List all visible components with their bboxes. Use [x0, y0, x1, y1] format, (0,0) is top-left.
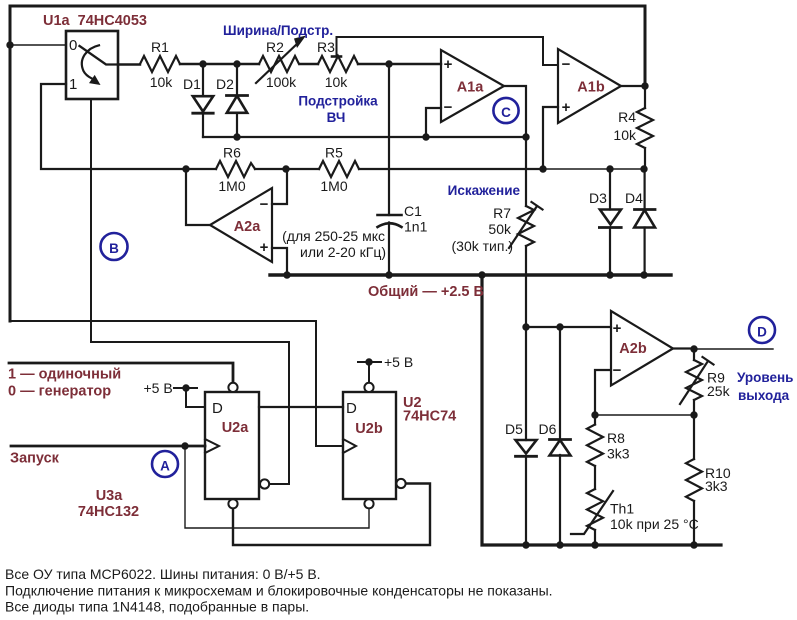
svg-text:D2: D2 — [216, 76, 234, 92]
flip-flop U2a box — [205, 392, 259, 499]
wire R10 column — [693, 415, 695, 545]
svg-text:R3: R3 — [317, 39, 335, 55]
op-amp A1a — [441, 50, 504, 122]
U2a Qbar bubble — [260, 479, 269, 488]
resistor R8 — [587, 425, 603, 466]
wire R2-R3 — [300, 63, 318, 65]
svg-text:3k3: 3k3 — [705, 478, 728, 494]
svg-text:D6: D6 — [539, 421, 557, 437]
svg-text:Все диоды типа 1N4148, подобра: Все диоды типа 1N4148, подобранные в пар… — [5, 599, 309, 615]
U2b clock triangle — [343, 439, 356, 453]
svg-text:U2a: U2a — [222, 420, 250, 436]
wire zapusk input to U2a clock — [11, 445, 205, 448]
wire output D thin line — [694, 348, 773, 350]
U2a set bubble — [228, 499, 237, 508]
svg-text:A: A — [160, 459, 170, 474]
wire A2b output — [673, 347, 694, 349]
svg-text:−: − — [260, 196, 269, 213]
svg-text:1M0: 1M0 — [218, 178, 245, 194]
wire U1a output to R1 — [118, 63, 140, 65]
wire R8 top and R8-Th1 link and Th1 bottom — [594, 415, 596, 545]
switch U1a box — [66, 31, 118, 99]
svg-text:D3: D3 — [589, 190, 607, 206]
svg-text:1 — одиночный: 1 — одиночный — [8, 367, 121, 383]
svg-text:R4: R4 — [618, 109, 636, 125]
svg-text:1n1: 1n1 — [404, 219, 428, 235]
svg-text:R2: R2 — [266, 39, 284, 55]
svg-text:Запуск: Запуск — [10, 451, 60, 467]
svg-text:100k: 100k — [266, 74, 297, 90]
resistor R4 — [637, 108, 653, 148]
svg-text:ВЧ: ВЧ — [327, 110, 346, 125]
op-amp A2a pointing left — [210, 188, 272, 262]
wire A2a plus stub to common bus — [272, 248, 287, 275]
wire U2a Q to U2b D — [259, 406, 343, 408]
diode D2 — [227, 94, 248, 97]
svg-text:U3a: U3a — [96, 488, 124, 504]
svg-text:Ширина/Подстр.: Ширина/Подстр. — [223, 23, 333, 38]
svg-text:10k: 10k — [150, 74, 174, 90]
svg-text:D4: D4 — [625, 190, 643, 206]
svg-text:D5: D5 — [505, 421, 523, 437]
wire R3 to A1a plus input — [358, 63, 441, 65]
wire D3 column — [609, 169, 611, 275]
diode D6 — [550, 438, 571, 441]
svg-text:10k: 10k — [613, 127, 637, 143]
svg-text:74HC132: 74HC132 — [78, 504, 139, 520]
svg-text:A1b: A1b — [577, 80, 605, 96]
diode D5 — [516, 440, 537, 454]
switch U1a arm — [80, 46, 119, 65]
U2a clock triangle — [205, 439, 219, 453]
svg-text:D1: D1 — [183, 76, 201, 92]
svg-text:Th1: Th1 — [610, 501, 634, 517]
svg-text:C: C — [501, 105, 511, 120]
wire A1a output down through node to R7 — [504, 86, 526, 206]
svg-text:−: − — [562, 56, 571, 73]
wire R4 bottom — [644, 148, 646, 169]
svg-text:D: D — [212, 400, 223, 417]
svg-text:(30k тип.): (30k тип.) — [452, 238, 514, 254]
svg-text:Общий — +2.5 В: Общий — +2.5 В — [368, 284, 484, 300]
wire top rail with left rail and drop to A1b output — [10, 6, 645, 321]
wire R9 column — [693, 349, 695, 415]
wire A1b plus stub — [543, 107, 558, 169]
wire lower net y137 D1 D2 to A1a feedback — [203, 136, 526, 138]
wire reference net y169 R5 to R4 bottom — [359, 168, 543, 170]
resistor R1 — [140, 56, 180, 72]
svg-text:D: D — [346, 400, 357, 417]
wire D5 column — [525, 327, 527, 545]
potentiometer R2 — [259, 56, 299, 72]
U2a reset bubble — [228, 383, 237, 392]
svg-text:Подключение питания к микросхе: Подключение питания к микросхемам и блок… — [5, 583, 553, 599]
wire clock feed from top rail to U2b clock — [10, 321, 343, 446]
svg-text:R7: R7 — [493, 205, 511, 221]
svg-text:C1: C1 — [404, 203, 422, 219]
wire A1a minus stub — [426, 108, 441, 137]
svg-text:+: + — [260, 239, 269, 256]
node A — [152, 451, 178, 477]
wire mode input to U2a reset bubble — [9, 363, 233, 383]
node C — [493, 98, 518, 123]
svg-text:U2b: U2b — [355, 421, 383, 437]
svg-text:25k: 25k — [707, 383, 731, 399]
svg-text:−: − — [613, 362, 622, 379]
wire 0-input of U1a — [10, 44, 66, 46]
svg-text:0 — генератор: 0 — генератор — [8, 384, 111, 400]
svg-text:0: 0 — [69, 37, 77, 54]
svg-text:U1a 74HC4053: U1a 74HC4053 — [43, 13, 147, 29]
wire select net U1a pin to U2a Qbar — [91, 99, 289, 484]
svg-text:Все ОУ типа MCP6022. Шины пита: Все ОУ типа MCP6022. Шины питания: 0 В/+… — [5, 566, 321, 582]
wire main node R1-R2 with D1 D2 taps — [180, 63, 259, 65]
wire 1-input of U1a from A2a output net — [41, 84, 216, 169]
svg-text:+: + — [613, 320, 622, 337]
svg-text:50k: 50k — [488, 221, 512, 237]
wire C1 branch from main node to bus — [388, 64, 390, 275]
wire U2a set bubble to U2b Qbar bubble — [233, 484, 430, 546]
svg-text:Подстройка: Подстройка — [298, 94, 378, 109]
resistor R5 — [319, 161, 359, 177]
svg-text:выхода: выхода — [738, 388, 790, 403]
diode D1 — [193, 96, 213, 111]
svg-text:+: + — [562, 99, 571, 116]
svg-text:10k при 25 °C: 10k при 25 °C — [610, 516, 699, 532]
svg-text:R5: R5 — [325, 145, 343, 161]
svg-text:B: B — [109, 241, 119, 256]
svg-text:Уровень: Уровень — [737, 370, 793, 385]
svg-text:D: D — [757, 325, 767, 340]
wire R3 wiper to A1b minus input — [337, 37, 559, 65]
wire R6-R5 segment — [255, 168, 319, 170]
flip-flop U2b box — [343, 392, 396, 499]
wire +5V to U2b reset bubble — [358, 362, 381, 383]
svg-text:(для 250-25 мкс: (для 250-25 мкс — [282, 228, 385, 244]
svg-text:10k: 10k — [325, 74, 349, 90]
trimmer R7 — [518, 206, 534, 246]
node B — [101, 233, 128, 260]
resistor R10 — [686, 459, 702, 501]
wire right-side bus L to bottom rail — [482, 275, 721, 545]
svg-text:3k3: 3k3 — [607, 446, 630, 462]
resistor R6 — [216, 161, 255, 177]
wire D6 column — [559, 327, 561, 545]
svg-text:+5 В: +5 В — [144, 380, 173, 396]
wire R6 left node to A2a output — [186, 169, 210, 225]
trimmer R9 — [686, 360, 702, 400]
svg-text:A2b: A2b — [619, 341, 647, 357]
svg-text:R1: R1 — [151, 39, 169, 55]
wire A1b output to R4 top — [621, 86, 645, 108]
thermistor Th1 — [587, 489, 603, 530]
wire R7 bottom crossing bus to lower net — [525, 246, 527, 327]
U2b Qbar bubble — [396, 479, 405, 488]
U2b reset bubble — [364, 383, 373, 392]
svg-text:A1a: A1a — [457, 80, 485, 96]
svg-text:Искажение: Искажение — [448, 183, 521, 198]
svg-text:1: 1 — [69, 76, 77, 93]
svg-text:+5 В: +5 В — [384, 354, 413, 370]
trimmer R3 — [318, 56, 358, 72]
svg-text:−: − — [444, 99, 453, 116]
wire A2a minus stub — [272, 169, 287, 204]
wire D4 column — [643, 169, 645, 275]
capacitor C1 — [378, 214, 402, 217]
svg-text:+: + — [444, 56, 453, 73]
diode D3 — [600, 210, 621, 225]
svg-text:R6: R6 — [223, 145, 241, 161]
svg-text:74HC74: 74HC74 — [403, 409, 456, 425]
wire D1 bottom to lower net — [202, 113, 204, 137]
wire A2b minus stub to feedback node — [595, 370, 611, 415]
junction dots — [6, 41, 13, 48]
node D — [749, 317, 775, 343]
wire zapusk branch to U2b set bubble — [185, 446, 369, 528]
op-amp A2b — [611, 311, 673, 386]
switch U1a arrow arc — [82, 45, 99, 78]
wire net y327 to A2b plus input — [526, 326, 611, 328]
svg-text:R8: R8 — [607, 430, 625, 446]
wire +5V to U2a D input — [174, 388, 205, 407]
wire feedback net y415 — [595, 414, 694, 416]
diode D4 — [635, 208, 656, 211]
op-amp A1b — [558, 49, 621, 123]
svg-text:1M0: 1M0 — [320, 178, 347, 194]
wire common bus 2.5V — [270, 273, 671, 276]
U2b set bubble — [364, 499, 373, 508]
svg-text:A2a: A2a — [234, 219, 262, 235]
svg-text:или 2-20 кГц): или 2-20 кГц) — [300, 244, 386, 260]
wire D2 bottom — [236, 113, 238, 137]
